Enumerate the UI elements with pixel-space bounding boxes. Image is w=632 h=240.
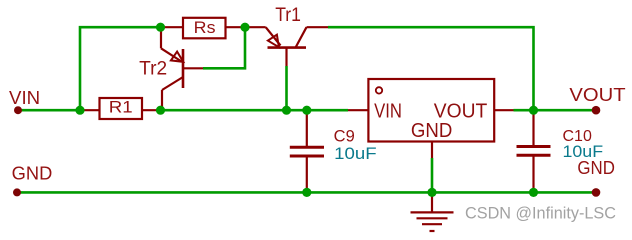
- resistor Rs: [161, 18, 246, 39]
- transistor Tr1 (PNP): [245, 27, 328, 66]
- svg-text:VIN: VIN: [9, 88, 40, 108]
- capacitor C10: [517, 110, 551, 192]
- wire VIN rail from R1 to regulator VIN pin: [161, 109, 349, 112]
- svg-text:Tr2: Tr2: [139, 59, 167, 80]
- junction C9 bottom on GND rail: [302, 188, 311, 197]
- svg-text:CSDN @Infinity-LSC: CSDN @Infinity-LSC: [465, 204, 616, 223]
- wire regulator GND pin to GND rail: [431, 158, 434, 192]
- node GND terminal left: [13, 188, 21, 196]
- wire VIN stub from terminal to junction: [18, 109, 80, 112]
- wire top-left branch: vertical from VIN rail up and across to Rs input: [80, 27, 161, 110]
- transistor Tr2 (PNP): [161, 27, 203, 110]
- svg-text:Rs: Rs: [194, 18, 216, 37]
- svg-text:GND: GND: [12, 163, 53, 183]
- svg-text:C9: C9: [334, 127, 355, 145]
- wire Tr1 collector to VOUT rail: [328, 27, 534, 110]
- junction at Rs output / Tr1 emitter: [240, 23, 249, 32]
- junction C9 top on VIN rail: [302, 106, 311, 115]
- resistor R1: [80, 98, 161, 119]
- svg-text:Tr1: Tr1: [275, 5, 301, 26]
- svg-text:VIN: VIN: [374, 101, 402, 123]
- ground symbol: [411, 192, 454, 231]
- svg-text:GND: GND: [577, 158, 615, 178]
- node VOUT terminal: [592, 106, 601, 115]
- node VIN terminal: [14, 106, 22, 114]
- junction VIN rail left branch: [75, 106, 84, 115]
- wire Tr2 base net to Rs output: [203, 27, 245, 68]
- wire VOUT rail from regulator output to terminal: [514, 109, 597, 112]
- capacitor C9: [290, 110, 324, 192]
- wire GND rail: [17, 191, 596, 194]
- junction VOUT rail / C10 top: [529, 106, 538, 115]
- junction regulator GND on GND rail: [427, 188, 436, 197]
- svg-text:10uF: 10uF: [334, 145, 376, 163]
- junction C10 bottom on GND rail: [529, 188, 538, 197]
- svg-text:GND: GND: [411, 120, 452, 142]
- node GND terminal right: [592, 188, 601, 197]
- junction on top rail at Rs input / Tr2 emitter: [156, 23, 165, 32]
- wire Tr1 base down to VIN rail: [285, 66, 288, 110]
- svg-text:VOUT: VOUT: [569, 85, 625, 105]
- junction Tr1 base on VIN rail: [282, 106, 291, 115]
- regulator U1 box: [348, 79, 514, 158]
- junction R1 output / Tr2 collector: [156, 106, 165, 115]
- svg-text:R1: R1: [109, 97, 133, 116]
